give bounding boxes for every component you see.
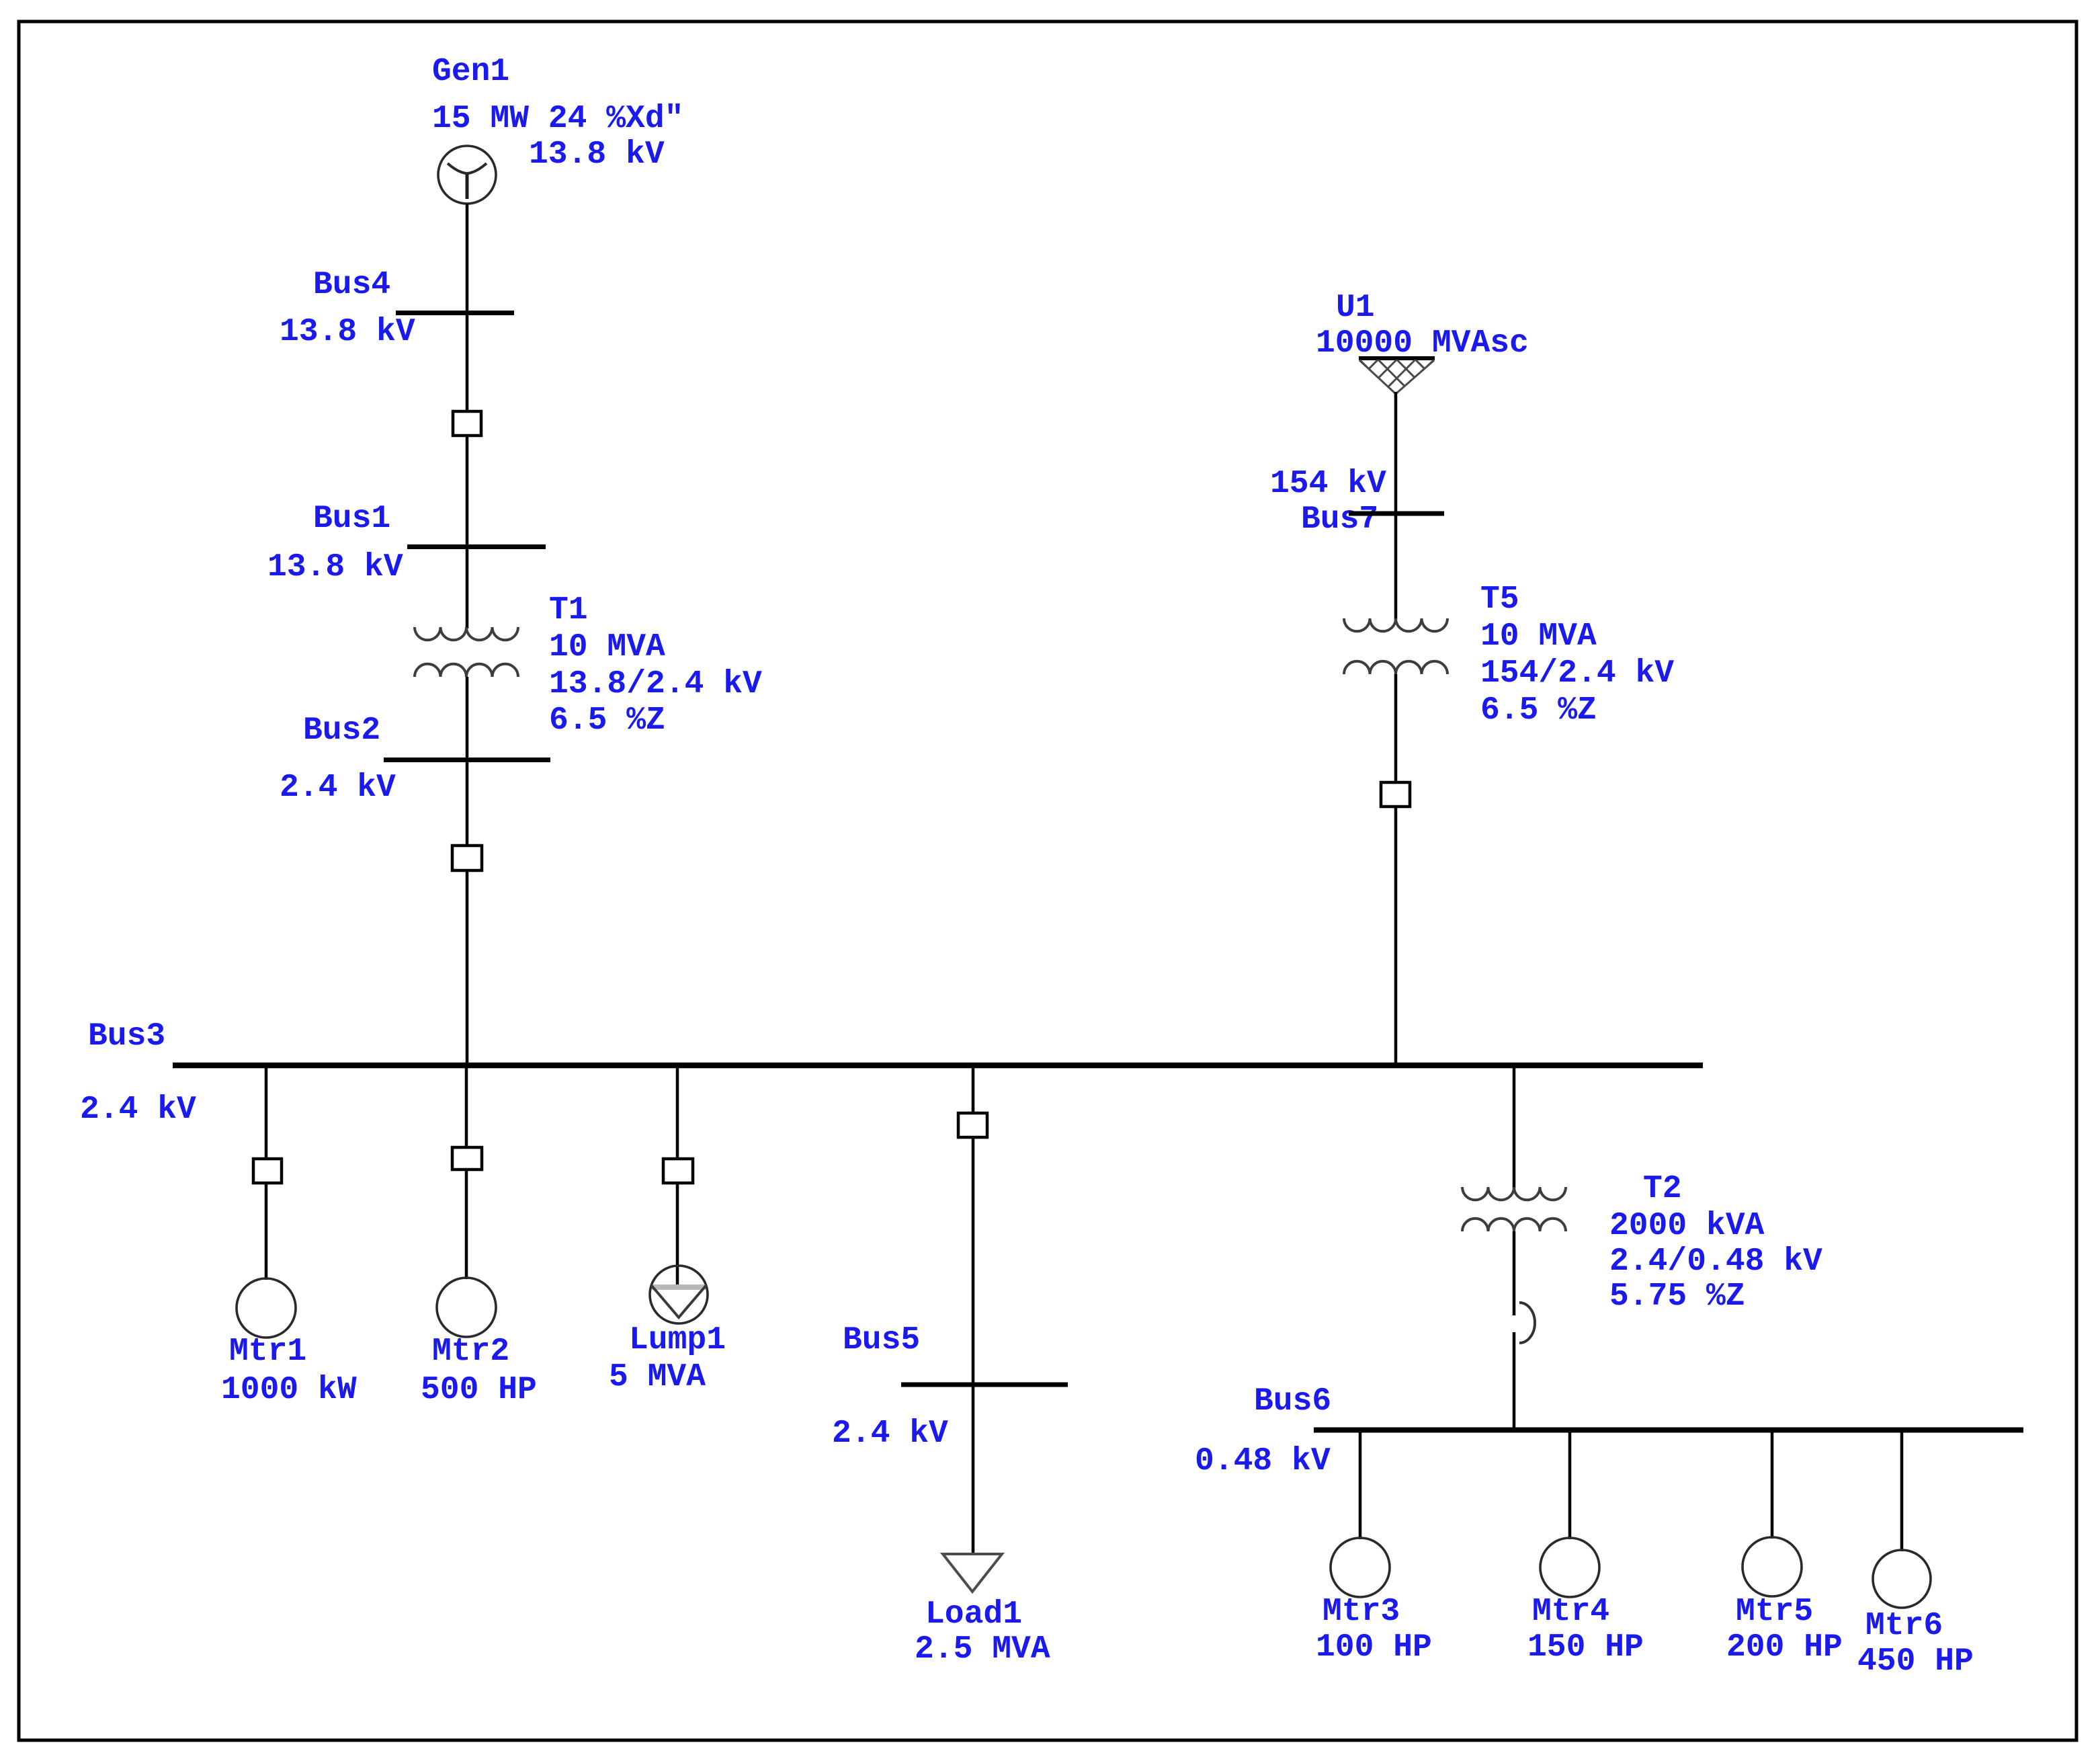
svg-text:2.4 kV: 2.4 kV: [80, 1092, 196, 1128]
wire Bus6 to Mtr6: [1900, 1430, 1904, 1551]
motor Mtr2: [437, 1278, 496, 1337]
svg-text:Mtr6: Mtr6: [1865, 1608, 1943, 1644]
svg-text:2.4 kV: 2.4 kV: [832, 1416, 948, 1452]
wire fuse to Bus6: [1513, 1332, 1516, 1430]
svg-text:15 MW 24 %Xd": 15 MW 24 %Xd": [432, 101, 683, 137]
transformer T2: [1462, 1187, 1566, 1231]
motor Mtr4: [1540, 1538, 1599, 1597]
svg-text:Gen1: Gen1: [432, 54, 509, 90]
wire Gen1 to Bus4: [466, 204, 469, 313]
svg-text:13.8 kV: 13.8 kV: [267, 549, 403, 585]
svg-text:Mtr4: Mtr4: [1532, 1594, 1609, 1630]
load Load1 triangle: [943, 1554, 1002, 1592]
svg-text:154/2.4 kV: 154/2.4 kV: [1480, 655, 1674, 692]
svg-text:150 HP: 150 HP: [1527, 1629, 1644, 1666]
wire Bus4 to CB1: [466, 312, 469, 413]
bus Bus3: [173, 1063, 1703, 1069]
wire Bus6 to Mtr3: [1359, 1430, 1362, 1539]
svg-text:13.8 kV: 13.8 kV: [280, 314, 415, 350]
wire Bus7 to T5: [1394, 512, 1398, 620]
wire Bus3 to CB-Load1: [972, 1065, 975, 1114]
breaker CB1: [453, 411, 481, 436]
motor Mtr5: [1742, 1537, 1802, 1596]
svg-text:0.48 kV: 0.48 kV: [1195, 1443, 1331, 1479]
svg-text:200 HP: 200 HP: [1726, 1629, 1843, 1666]
svg-text:Mtr5: Mtr5: [1736, 1594, 1813, 1630]
wire CB-Mtr2 to Mtr2: [465, 1170, 468, 1279]
wire Bus6 to Mtr5: [1771, 1430, 1774, 1539]
bus Bus6: [1314, 1428, 2023, 1433]
svg-text:6.5 %Z: 6.5 %Z: [549, 702, 665, 739]
svg-text:Bus6: Bus6: [1254, 1383, 1331, 1420]
svg-text:Bus5: Bus5: [843, 1322, 920, 1358]
svg-text:2.4/0.48 kV: 2.4/0.48 kV: [1609, 1243, 1822, 1280]
svg-text:Mtr3: Mtr3: [1322, 1594, 1400, 1630]
svg-text:10000 MVAsc: 10000 MVAsc: [1316, 325, 1529, 362]
svg-text:Mtr1: Mtr1: [229, 1334, 306, 1370]
svg-text:Lump1: Lump1: [629, 1322, 726, 1358]
svg-text:Bus3: Bus3: [88, 1018, 165, 1055]
svg-text:Load1: Load1: [925, 1596, 1022, 1633]
wire U1 to Bus7: [1394, 392, 1398, 514]
wire Bus5 to Load1: [972, 1383, 975, 1554]
bus Bus1: [407, 544, 546, 549]
svg-text:Bus4: Bus4: [313, 267, 390, 303]
breaker CB-Mtr1: [253, 1159, 282, 1183]
motor Mtr3: [1331, 1538, 1390, 1597]
svg-text:T5: T5: [1480, 581, 1519, 618]
svg-text:100 HP: 100 HP: [1316, 1629, 1432, 1666]
bus Bus4: [396, 311, 514, 315]
bus Bus7: [1349, 512, 1444, 516]
transformer T5: [1344, 618, 1447, 674]
motor Mtr6: [1873, 1550, 1931, 1608]
wire Bus3 to CB-Lump1: [676, 1065, 679, 1160]
breaker CB2: [452, 846, 482, 870]
svg-text:1000 kW: 1000 kW: [221, 1372, 357, 1408]
bus Bus5: [901, 1383, 1068, 1387]
svg-text:5.75 %Z: 5.75 %Z: [1609, 1278, 1745, 1315]
breaker CB-Lump1: [663, 1159, 693, 1183]
generator Gen1 symbol: [438, 146, 496, 204]
svg-text:Bus1: Bus1: [313, 501, 390, 537]
wire CB2 to Bus3: [466, 870, 469, 1066]
wire T5 to CB-T5: [1394, 674, 1398, 784]
wire Bus6 to Mtr4: [1568, 1430, 1572, 1539]
wire T1 to Bus2: [466, 677, 469, 761]
wire Bus3 to CB-Mtr2: [465, 1065, 468, 1149]
breaker CB-T5: [1381, 782, 1410, 807]
svg-text:6.5 %Z: 6.5 %Z: [1480, 692, 1597, 729]
svg-text:Bus7: Bus7: [1301, 501, 1378, 538]
wire Bus3 to CB-Mtr1: [265, 1065, 268, 1160]
load Lump1 symbol: [650, 1266, 708, 1323]
transformer T1: [415, 627, 518, 677]
fuse F1: [1519, 1303, 1535, 1343]
bus Bus2: [384, 758, 550, 762]
svg-text:2.5 MVA: 2.5 MVA: [915, 1631, 1050, 1668]
wire CB-Load1 to Bus5: [972, 1137, 975, 1383]
svg-text:5 MVA: 5 MVA: [609, 1359, 706, 1395]
wire Bus2 to CB2: [466, 759, 469, 847]
motor Mtr1: [237, 1278, 296, 1338]
svg-text:10 MVA: 10 MVA: [1480, 618, 1597, 655]
wire CB-Lump1 to Lump1: [676, 1183, 679, 1289]
wire Bus1 to T1: [466, 546, 469, 628]
svg-text:Mtr2: Mtr2: [432, 1334, 509, 1370]
wire CB-T5 to Bus3: [1394, 807, 1398, 1066]
svg-text:U1: U1: [1336, 290, 1375, 326]
svg-text:2.4 kV: 2.4 kV: [280, 770, 396, 806]
svg-text:Bus2: Bus2: [303, 712, 380, 749]
svg-text:T2: T2: [1643, 1171, 1682, 1207]
svg-text:13.8/2.4 kV: 13.8/2.4 kV: [549, 666, 762, 702]
breaker CB-Load1: [958, 1113, 987, 1137]
svg-text:154 kV: 154 kV: [1270, 466, 1386, 502]
wire T2 to fuse: [1513, 1231, 1516, 1315]
wire Bus3 to T2: [1513, 1065, 1516, 1188]
svg-text:450 HP: 450 HP: [1857, 1643, 1974, 1680]
wire CB1 to Bus1: [466, 436, 469, 547]
svg-text:T1: T1: [549, 592, 588, 628]
svg-text:2000 kVA: 2000 kVA: [1609, 1208, 1765, 1244]
svg-text:10 MVA: 10 MVA: [549, 629, 665, 665]
utility U1 symbol: [1339, 358, 1455, 399]
wire CB-Mtr1 to Mtr1: [265, 1183, 268, 1280]
svg-text:500 HP: 500 HP: [421, 1372, 537, 1408]
svg-text:13.8 kV: 13.8 kV: [529, 136, 665, 173]
breaker CB-Mtr2: [452, 1147, 482, 1170]
